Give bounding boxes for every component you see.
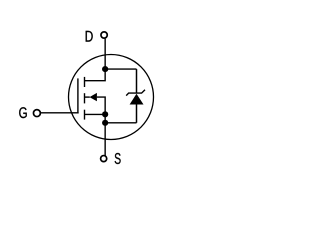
wire drain to channel <box>85 69 106 81</box>
body arrow stub <box>85 96 90 98</box>
channel body segment <box>84 93 86 103</box>
label D <box>86 31 93 42</box>
label S <box>115 153 121 164</box>
label G <box>19 107 27 118</box>
terminal S <box>101 156 107 162</box>
channel source segment <box>84 110 86 120</box>
wire gate <box>40 112 78 114</box>
channel drain segment <box>84 77 86 87</box>
diode cathode wire <box>136 69 138 93</box>
wire drain to diode cathode <box>105 68 136 70</box>
wire source terminal <box>104 123 106 156</box>
terminal D <box>101 32 107 38</box>
diode anode wire <box>136 104 138 122</box>
wire source stub <box>85 113 106 115</box>
node source junction <box>102 111 108 117</box>
body arrow <box>90 93 97 101</box>
zener cathode bar <box>126 90 145 96</box>
wire anode to diode <box>105 122 136 124</box>
node drain junction <box>102 66 108 72</box>
wire source to anode node <box>104 114 106 123</box>
wire body to source node <box>97 97 105 114</box>
diode triangle <box>130 94 144 105</box>
wire drain terminal <box>104 39 106 69</box>
transistor body circle <box>69 55 154 140</box>
terminal G <box>33 110 40 117</box>
node diode anode junction <box>102 120 108 126</box>
gate electrode <box>77 78 79 113</box>
